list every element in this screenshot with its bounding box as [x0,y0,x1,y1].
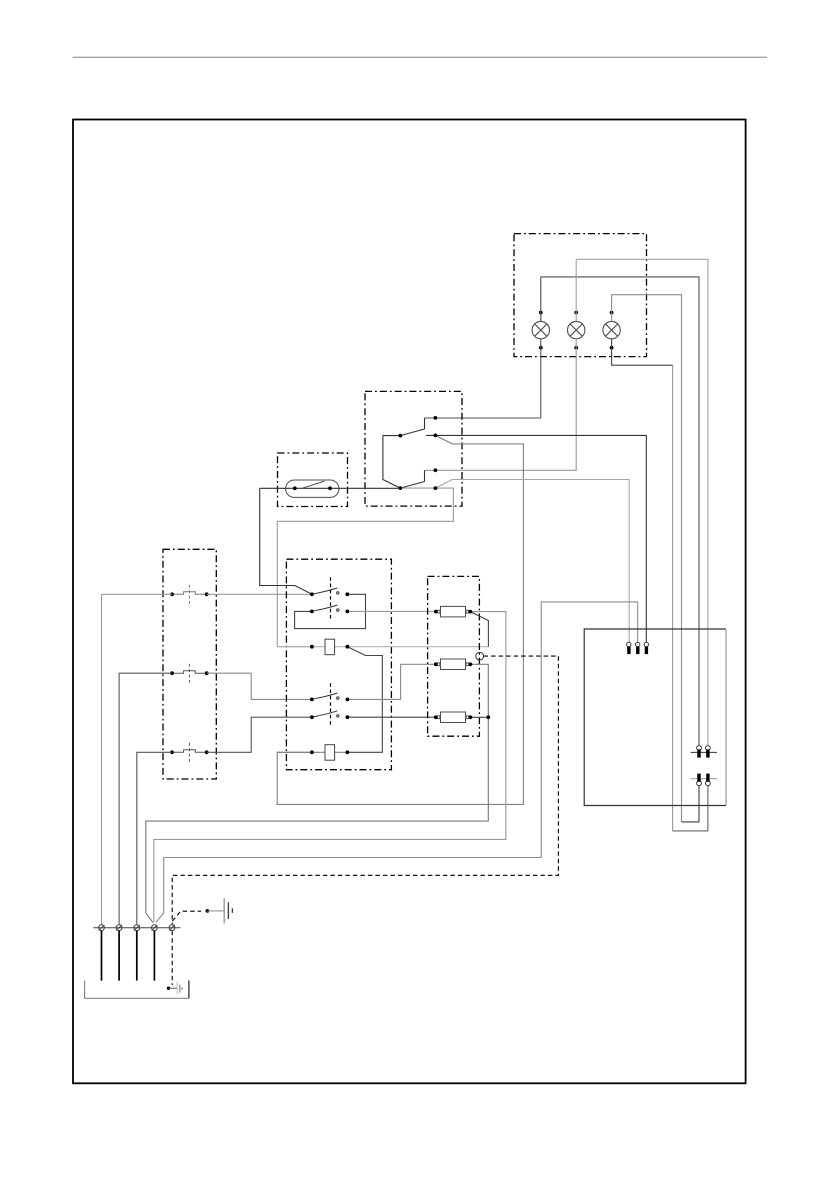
node: sender circle on resistor box edge [476,652,484,660]
wire: E1 armature to coil K1 line [470,612,488,647]
wire: feed drop to relay switch R1 common [260,488,312,594]
wire: B1 left to bulkhead connector 1 [102,594,173,925]
key switch arm [302,481,325,488]
wire: B2 left to bulkhead connector 2 [119,673,172,925]
relay contact R4 [312,711,339,717]
lamp L3 [603,321,620,338]
wire: K1 armature branch to coil K2 [347,647,382,753]
lamp L2 [568,321,585,338]
wire: S2 common jog to relay coil K1 line [277,488,453,647]
enclosure: key switch box [278,453,348,507]
component: tank [85,981,189,999]
node dots in switch box [398,416,437,490]
inline connector lower pair [691,774,718,786]
wire: E3 right to junction on E2 drop [470,716,488,718]
wire: battery lead 4 [153,931,155,981]
wire: battery lead 2 [118,931,120,981]
switch S2 lower changeover [400,470,424,488]
header rule [73,56,768,58]
wire: lamp L1 top feed to inline connector upper-left pin [541,277,699,746]
wire: S2 contact branch to big box pin 1 [435,480,629,643]
actuator link R1-R2 [330,577,332,620]
inline connector upper pair [691,746,718,758]
node dots at lamp terminals [539,311,614,350]
pin 2 of control unit [636,642,640,654]
pin 3 of control unit [644,642,648,654]
wire: lamp L2 bottom to changeover switch contact [425,339,577,471]
wire: R3 contact jog to resistor E2 [347,664,434,699]
wire: dashed sense line from circle to bulkhead connector 5 [172,656,558,925]
lamp L1 [532,321,549,338]
bulkhead connector 5 [169,925,175,931]
ground G2 in tank [167,982,182,995]
wire: B2 right jog to relay switch R3 [207,673,312,699]
wire: battery lead 3 [136,931,138,981]
wire: R1 crossover loop to R2 [295,594,366,628]
wire: lamp L3 bottom to inline connector lower-right pin [612,339,673,365]
wire: main feed from key switch to S2 common [260,487,401,489]
bulkhead connector 1 [99,925,105,931]
sender switch B2 [172,664,207,683]
wire: B3 left to bulkhead connector 3 [137,752,172,925]
resistor E3 [437,712,469,723]
enclosure: resistor box [428,576,480,736]
bulkhead connector 2 [116,925,122,931]
resistor E1 [437,606,469,617]
wire: big box pin 2 to bulkhead connector 4 (right slant) [156,602,638,923]
wire: B3 right jog to relay switch R4 [207,717,312,752]
wire: link between switch commons [383,436,400,489]
relay contact R2 [312,605,339,611]
relay contact R3 [312,693,339,699]
enclosure: sender switch box [163,549,216,779]
node dots relay box [310,592,349,754]
bulkhead connector 4 [152,925,158,931]
relay contact R1 [312,588,339,594]
wire: E1 right to bulkhead connector 4 (straight) [154,612,506,923]
node dots sender switches [170,592,209,754]
wire: E2 right down to bulkhead connector 4 (left slant) [146,664,489,922]
wire: dashed lead to tank ground [171,931,173,985]
diagram border frame [73,120,746,1084]
wire: battery lead 1 [101,931,103,981]
relay coil K1 [277,639,488,655]
wire: B1 right to relay switch R1 common [207,593,312,595]
enclosure: relay box [286,559,391,770]
resistor E2 [437,659,469,670]
sender switch B3 [172,743,207,762]
enclosure: lamp panel box [514,234,647,357]
node dots resistor box [434,610,490,720]
ground G1 symbol [224,898,232,923]
wire: lamp L3 top feed to inline connector lower-left pin [612,295,682,822]
sender switch B1 [172,585,207,604]
wire: lamp L2 top feed to inline connector upper-right pin [576,259,708,745]
actuator link R3-R4 [330,683,332,725]
pin 1 of control unit [627,642,631,654]
node dots key switch [293,486,332,490]
enclosure: changeover switch box [365,391,462,506]
wire: R2 contact to resistor E1 [347,610,434,612]
key switch stadium body [286,480,339,497]
wire: S1 contact to big box pin 3 [426,435,646,642]
bulkhead connector 3 [134,925,140,931]
component: control unit box [584,629,726,806]
switch S1 upper changeover [400,418,424,436]
bulkhead connector rail [93,927,180,929]
ground G1 branch [172,909,223,921]
wire: R4 contact to resistor E3 [347,716,434,718]
wire: S1 contact branch to relay coil K2 return [277,435,523,804]
relay coil K2 [277,745,347,761]
wire: lamp L1 bottom to changeover switch contact [425,339,541,418]
